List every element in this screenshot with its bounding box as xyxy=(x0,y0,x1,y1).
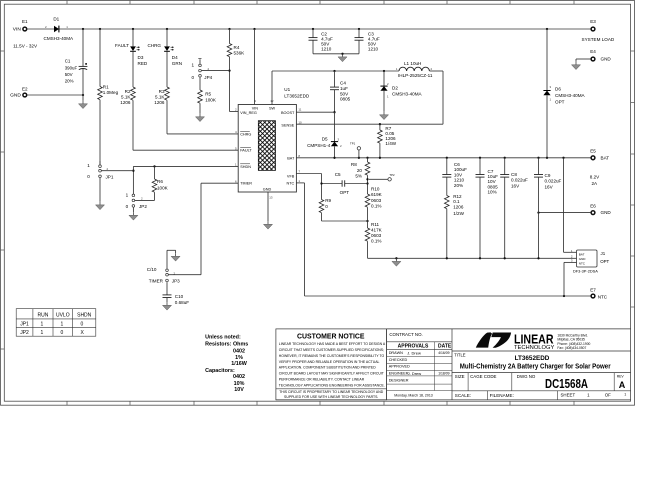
svg-text:SENSE: SENSE xyxy=(281,124,294,128)
svg-text:VFB: VFB xyxy=(287,174,295,178)
svg-text:E5: E5 xyxy=(590,149,596,154)
svg-text:C/10: C/10 xyxy=(147,267,157,272)
svg-text:CIRCUIT THAT MEETS CUSTOMER-SU: CIRCUIT THAT MEETS CUSTOMER-SUPPLIED SPE… xyxy=(279,348,384,352)
svg-text:1206: 1206 xyxy=(453,204,464,209)
svg-text:SW: SW xyxy=(269,107,276,111)
svg-text:2A: 2A xyxy=(592,181,599,186)
svg-text:390uF: 390uF xyxy=(65,65,78,70)
svg-text:Resistors: Ohms: Resistors: Ohms xyxy=(205,342,248,348)
svg-text:OPT: OPT xyxy=(555,99,565,104)
svg-text:E1: E1 xyxy=(22,19,28,24)
svg-text:R10: R10 xyxy=(371,187,380,192)
svg-text:THIS CIRCUIT IS PROPRIETARY TO: THIS CIRCUIT IS PROPRIETARY TO LINEAR TE… xyxy=(279,390,383,394)
svg-text:16V: 16V xyxy=(545,184,554,189)
svg-text:0603: 0603 xyxy=(371,233,382,238)
svg-text:5%: 5% xyxy=(355,173,362,178)
svg-text:Fax: (408)434-0507: Fax: (408)434-0507 xyxy=(557,346,586,350)
svg-text:0.022uF: 0.022uF xyxy=(545,179,562,184)
svg-text:DATE: DATE xyxy=(438,344,452,350)
svg-text:DESIGNER: DESIGNER xyxy=(389,378,409,382)
svg-text:1uF: 1uF xyxy=(340,86,348,91)
svg-text:Monday, March 18, 2013: Monday, March 18, 2013 xyxy=(394,393,433,397)
svg-text:R2: R2 xyxy=(125,89,131,94)
svg-text:UVLO: UVLO xyxy=(56,313,70,319)
svg-text:0.022uF: 0.022uF xyxy=(511,178,528,183)
svg-text:NTC: NTC xyxy=(286,182,294,186)
svg-text:CMSH3-40MA: CMSH3-40MA xyxy=(392,92,423,97)
svg-text:TIMER: TIMER xyxy=(149,279,164,284)
svg-text:VIN_REG: VIN_REG xyxy=(240,111,257,115)
svg-text:CHECKED: CHECKED xyxy=(389,358,408,362)
svg-text:1: 1 xyxy=(87,163,90,168)
svg-text:DC1568A: DC1568A xyxy=(545,376,588,391)
svg-text:417K: 417K xyxy=(371,227,383,232)
svg-text:TP1: TP1 xyxy=(350,142,356,146)
svg-text:J. Drew: J. Drew xyxy=(407,351,421,356)
svg-text:100K: 100K xyxy=(205,98,217,103)
svg-text:0: 0 xyxy=(191,75,194,80)
svg-text:16V: 16V xyxy=(511,183,520,188)
svg-text:FILENAME:: FILENAME: xyxy=(490,393,514,398)
svg-text:U1: U1 xyxy=(284,87,290,92)
svg-text:12: 12 xyxy=(270,99,274,103)
svg-text:1210: 1210 xyxy=(321,46,332,51)
svg-text:5.1K: 5.1K xyxy=(155,95,165,100)
svg-text:1: 1 xyxy=(624,392,626,396)
svg-text:DWG NO: DWG NO xyxy=(517,374,536,379)
svg-text:E6: E6 xyxy=(590,204,596,209)
svg-text:5.1K: 5.1K xyxy=(121,95,131,100)
svg-text:1/2W: 1/2W xyxy=(453,211,464,216)
svg-text:50V: 50V xyxy=(65,72,73,77)
svg-text:C1: C1 xyxy=(65,59,71,64)
svg-text:JP3: JP3 xyxy=(172,279,180,284)
svg-text:IHLP-2525CZ-11: IHLP-2525CZ-11 xyxy=(398,73,433,78)
svg-text:SCALE:: SCALE: xyxy=(455,393,471,398)
svg-text:CIRCUIT BOARD LAYOUT MAY SIGNI: CIRCUIT BOARD LAYOUT MAY SIGNIFICANTLY A… xyxy=(279,372,385,376)
svg-text:RED: RED xyxy=(138,61,148,66)
svg-text:R8: R8 xyxy=(351,162,357,167)
svg-text:LT3652EDD: LT3652EDD xyxy=(284,93,310,98)
svg-text:R4: R4 xyxy=(234,45,240,50)
svg-text:0: 0 xyxy=(126,204,129,209)
svg-text:TECHNOLOGY APPLICATIONS ENGINE: TECHNOLOGY APPLICATIONS ENGINEERING FOR … xyxy=(279,384,385,388)
svg-text:A: A xyxy=(619,380,626,390)
svg-text:SHEET: SHEET xyxy=(561,393,576,398)
svg-text:CHRG: CHRG xyxy=(147,43,161,48)
svg-text:VERIFY PROPER AND RELIABLE OPE: VERIFY PROPER AND RELIABLE OPERATION IN … xyxy=(279,360,380,364)
svg-text:20%: 20% xyxy=(454,183,463,188)
svg-text:0603: 0603 xyxy=(371,198,382,203)
svg-text:0402: 0402 xyxy=(233,374,245,380)
svg-text:JP1: JP1 xyxy=(106,175,114,180)
svg-text:50V: 50V xyxy=(340,91,349,96)
svg-text:1/18/09: 1/18/09 xyxy=(438,372,449,376)
svg-text:TECHNOLOGY: TECHNOLOGY xyxy=(514,345,555,351)
svg-text:1: 1 xyxy=(61,321,64,327)
svg-text:4/16/09: 4/16/09 xyxy=(438,351,449,355)
svg-text:Capacitors:: Capacitors: xyxy=(205,368,235,374)
svg-text:J. Drew: J. Drew xyxy=(408,371,422,376)
svg-text:D1: D1 xyxy=(53,17,59,22)
svg-text:SUPPLIED FOR USE WITH LINEAR T: SUPPLIED FOR USE WITH LINEAR TECHNOLOGY … xyxy=(284,395,378,399)
svg-text:D5: D5 xyxy=(322,136,328,141)
svg-text:D2: D2 xyxy=(392,85,398,90)
svg-text:CMSH3-40MA: CMSH3-40MA xyxy=(555,93,586,98)
svg-text:OF: OF xyxy=(605,393,611,398)
svg-text:CHRG: CHRG xyxy=(240,132,251,136)
svg-text:1: 1 xyxy=(41,321,44,327)
svg-text:HOWEVER, IT REMAINS THE CUSTOM: HOWEVER, IT REMAINS THE CUSTOMER’S RESPO… xyxy=(279,354,385,358)
svg-text:11.5V - 32V: 11.5V - 32V xyxy=(13,44,38,49)
svg-text:Unless noted:: Unless noted: xyxy=(205,335,241,341)
svg-text:C4: C4 xyxy=(340,81,346,86)
svg-text:1210: 1210 xyxy=(368,46,379,51)
svg-text:BAT: BAT xyxy=(287,156,295,160)
svg-text:DRAWN: DRAWN xyxy=(389,351,403,355)
svg-text:Multi-Chemistry 2A Battery Cha: Multi-Chemistry 2A Battery Charger for S… xyxy=(460,363,611,370)
svg-text:CAGE CODE: CAGE CODE xyxy=(470,374,496,379)
svg-text:VIN: VIN xyxy=(13,27,22,33)
svg-text:SHDN: SHDN xyxy=(240,165,251,169)
svg-text:BOOST: BOOST xyxy=(281,111,295,115)
svg-text:100K: 100K xyxy=(157,185,169,190)
svg-text:BAT: BAT xyxy=(601,155,610,160)
svg-text:0: 0 xyxy=(325,204,328,209)
svg-text:JP4: JP4 xyxy=(204,75,212,80)
svg-text:E2: E2 xyxy=(22,86,28,91)
svg-text:REV: REV xyxy=(617,374,625,378)
svg-text:JP2: JP2 xyxy=(139,204,147,209)
svg-text:GRN: GRN xyxy=(172,61,182,66)
svg-text:R9: R9 xyxy=(325,198,331,203)
svg-text:LINEAR TECHNOLOGY HAS MADE A B: LINEAR TECHNOLOGY HAS MADE A BEST EFFORT… xyxy=(279,342,386,346)
svg-text:1.0Meg: 1.0Meg xyxy=(103,90,119,95)
svg-text:CONTRACT NO.: CONTRACT NO. xyxy=(389,332,422,337)
svg-text:JP2: JP2 xyxy=(20,330,29,336)
svg-text:SYSTEM LOAD: SYSTEM LOAD xyxy=(582,37,615,42)
svg-text:R3: R3 xyxy=(159,89,165,94)
svg-text:APPLICATION. COMPONENT SUBSTI: APPLICATION. COMPONENT SUBSTITUTION AND … xyxy=(279,366,376,370)
svg-text:NTC: NTC xyxy=(579,262,586,266)
svg-text:0805: 0805 xyxy=(340,97,351,102)
svg-text:C10: C10 xyxy=(175,294,184,299)
svg-text:536K: 536K xyxy=(234,51,246,56)
svg-text:1/4W: 1/4W xyxy=(385,141,396,146)
svg-text:CMPSH1-4: CMPSH1-4 xyxy=(307,143,331,148)
svg-text:OPT: OPT xyxy=(340,190,350,195)
svg-text:APPROVED: APPROVED xyxy=(389,365,410,369)
svg-text:1: 1 xyxy=(126,192,129,197)
svg-text:LT3652EDD: LT3652EDD xyxy=(515,356,550,362)
svg-text:1: 1 xyxy=(41,330,44,336)
svg-text:FAULT: FAULT xyxy=(240,149,252,153)
svg-text:0: 0 xyxy=(87,174,90,179)
svg-text:1206: 1206 xyxy=(154,100,165,105)
svg-text:13: 13 xyxy=(269,195,273,199)
svg-text:GND: GND xyxy=(579,257,587,261)
svg-text:SIZE: SIZE xyxy=(455,374,465,379)
svg-text:0402: 0402 xyxy=(233,349,245,355)
svg-text:TITLE: TITLE xyxy=(454,352,466,357)
svg-text:BAT: BAT xyxy=(579,252,585,256)
svg-text:10%: 10% xyxy=(234,381,245,387)
svg-text:10V: 10V xyxy=(234,387,244,393)
svg-text:GND: GND xyxy=(10,93,21,99)
svg-text:OPT: OPT xyxy=(600,259,609,264)
svg-text:D6: D6 xyxy=(555,87,561,92)
svg-text:20: 20 xyxy=(357,168,363,173)
svg-text:8.2V: 8.2V xyxy=(590,175,600,180)
svg-text:0.1%: 0.1% xyxy=(371,203,381,208)
svg-text:0: 0 xyxy=(81,321,84,327)
svg-text:10%: 10% xyxy=(488,190,497,195)
svg-text:D4: D4 xyxy=(172,55,178,60)
svg-text:0.68uF: 0.68uF xyxy=(175,300,189,305)
svg-text:10: 10 xyxy=(298,120,302,124)
svg-text:JP1: JP1 xyxy=(20,321,29,327)
svg-text:E4: E4 xyxy=(590,49,596,54)
svg-text:GND: GND xyxy=(263,187,272,191)
svg-text:CUSTOMER NOTICE: CUSTOMER NOTICE xyxy=(297,333,365,340)
svg-text:1206: 1206 xyxy=(120,100,131,105)
svg-text:R5: R5 xyxy=(205,92,211,97)
svg-text:E7: E7 xyxy=(590,287,596,292)
svg-text:E3: E3 xyxy=(590,19,596,24)
svg-text:ENGINEER: ENGINEER xyxy=(389,372,409,376)
svg-text:DF3-3P-2DSA: DF3-3P-2DSA xyxy=(573,269,598,274)
svg-text:11: 11 xyxy=(298,108,301,112)
svg-text:RUN: RUN xyxy=(37,313,48,319)
svg-text:PERFORMANCE OR RELIABILITY. C: PERFORMANCE OR RELIABILITY. CONTACT LINE… xyxy=(279,378,365,382)
svg-text:619K: 619K xyxy=(371,192,383,197)
svg-text:TIMER: TIMER xyxy=(240,182,252,186)
svg-text:1: 1 xyxy=(191,62,194,67)
svg-text:GND: GND xyxy=(601,57,612,62)
svg-text:C5: C5 xyxy=(335,172,341,177)
svg-text:J1: J1 xyxy=(601,251,606,256)
svg-text:C8: C8 xyxy=(511,172,517,177)
svg-text:C9: C9 xyxy=(545,173,551,178)
svg-text:VIN: VIN xyxy=(252,107,259,111)
svg-text:APPROVALS: APPROVALS xyxy=(398,344,429,350)
svg-text:D3: D3 xyxy=(138,55,144,60)
svg-text:TP2: TP2 xyxy=(389,173,395,177)
svg-text:R1: R1 xyxy=(103,85,109,90)
svg-text:CMSH3-40MA: CMSH3-40MA xyxy=(44,36,75,41)
svg-text:0: 0 xyxy=(61,330,64,336)
svg-text:0.1%: 0.1% xyxy=(371,239,381,244)
svg-text:FAULT: FAULT xyxy=(115,43,129,48)
svg-text:NTC: NTC xyxy=(598,294,608,299)
svg-text:GND: GND xyxy=(601,210,612,215)
svg-text:1/16W: 1/16W xyxy=(231,361,247,367)
svg-text:R6: R6 xyxy=(157,179,163,184)
svg-text:L1 10uH: L1 10uH xyxy=(404,61,421,66)
svg-text:R11: R11 xyxy=(371,222,380,227)
svg-text:20%: 20% xyxy=(65,79,74,84)
svg-text:SHDN: SHDN xyxy=(77,313,92,319)
